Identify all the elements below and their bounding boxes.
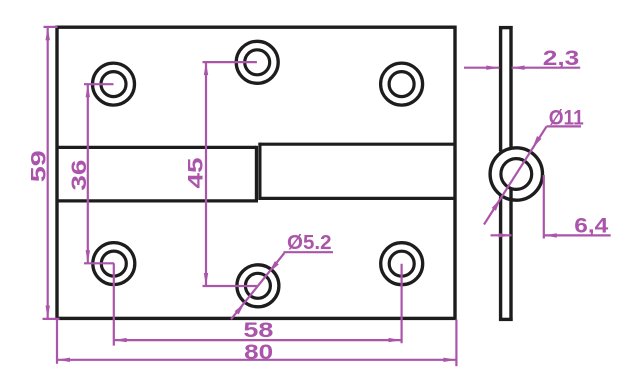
- dimension 80 line: [57, 359, 456, 361]
- dimension 2,3 arrow pointing left: [512, 66, 525, 70]
- dimension 36 extension tick top: [84, 83, 114, 85]
- dimension 6,4 left line: [491, 234, 512, 236]
- dimension 58 arrow left: [114, 338, 127, 342]
- hole bottom-right inner: [389, 251, 414, 276]
- hole top-right outer: [381, 63, 423, 105]
- svg-text:Ø5.2: Ø5.2: [287, 232, 332, 254]
- dimension diameter 5.2 upper arrow: [269, 261, 279, 272]
- side leaf bar bottom cap: [499, 318, 513, 321]
- dimension 2,3 arrow pointing right: [486, 66, 499, 70]
- svg-text:58: 58: [243, 319, 273, 342]
- slot left end vertical: [255, 146, 258, 203]
- dimension 59 arrow up: [46, 27, 50, 40]
- svg-text:6,4: 6,4: [574, 214, 608, 237]
- dimension 6,4 extension line: [543, 175, 545, 239]
- svg-text:59: 59: [27, 150, 50, 182]
- svg-text:Ø11: Ø11: [549, 107, 584, 130]
- knuckle inner circle: [501, 159, 532, 190]
- dimension 58 extension line left: [113, 263, 115, 345]
- dimension 6,4 arrow pointing right: [499, 233, 512, 237]
- dimension 36 arrow down: [86, 250, 90, 263]
- side leaf bar right line lower segment: [509, 190, 512, 322]
- side leaf bar left line upper segment: [499, 26, 502, 152]
- side leaf bar right line upper segment: [509, 26, 512, 148]
- slot right bottom line: [260, 197, 455, 200]
- dimension diameter 5.2 underline: [284, 251, 334, 253]
- hole top-right inner: [389, 72, 414, 97]
- dimension 36 extension tick bottom: [84, 262, 114, 264]
- slot left top line: [57, 146, 256, 149]
- knuckle outer circle: [490, 148, 542, 200]
- hole top-middle outer: [236, 41, 278, 83]
- dimension diameter 11 leader: [484, 127, 547, 225]
- dimension 80 extension line right: [455, 320, 457, 367]
- dimension 58 extension line right: [401, 264, 403, 344]
- svg-text:36: 36: [68, 160, 91, 191]
- dimension 80 arrow left: [57, 358, 70, 362]
- dimension 45 arrow up: [204, 62, 208, 75]
- dimension 59 extension tick top: [44, 26, 58, 28]
- svg-text:80: 80: [244, 341, 273, 364]
- dimension diameter 5.2 lower arrow: [235, 303, 245, 314]
- dimension 6,4 arrow pointing left: [544, 233, 557, 237]
- slot right end vertical: [258, 143, 261, 200]
- hole top-middle inner: [245, 50, 270, 75]
- dimension 59 arrow down: [46, 306, 50, 319]
- dimension 59 line: [47, 27, 49, 318]
- hole bottom-middle outer: [237, 265, 279, 307]
- plate outline: [57, 27, 455, 318]
- hole bottom-right outer: [381, 243, 423, 285]
- dimension 58 arrow right: [389, 338, 402, 342]
- dimension diameter 11 upper arrow: [533, 136, 542, 148]
- dimension 2,3 right line: [512, 67, 581, 69]
- dimension 45 extension tick bottom: [203, 285, 257, 287]
- dimension diameter 11 lower arrow: [492, 199, 501, 211]
- dimension 2,3 left line: [464, 67, 499, 69]
- hole bottom-middle inner: [245, 273, 270, 298]
- hole top-left outer: [93, 63, 135, 105]
- dimension 45 arrow down: [204, 273, 208, 286]
- side leaf bar left line lower segment: [499, 197, 502, 322]
- dimension diameter 11 underline: [547, 125, 582, 127]
- slot left bottom line: [57, 199, 256, 202]
- dimension 58 line: [114, 339, 402, 341]
- dimension 80 extension line left: [56, 320, 58, 364]
- dimension diameter 5.2 leader: [231, 253, 284, 319]
- hole top-left inner: [101, 72, 126, 97]
- side leaf bar top cap: [499, 26, 513, 29]
- hole bottom-left inner: [101, 251, 126, 276]
- dimension 36 arrow up: [86, 84, 90, 97]
- svg-text:2,3: 2,3: [543, 47, 580, 70]
- hole bottom-left outer: [93, 243, 135, 285]
- dimension 45 extension tick top: [203, 61, 257, 63]
- dimension 59 extension tick bottom: [43, 318, 60, 320]
- dimension 80 arrow right: [443, 358, 456, 362]
- svg-text:45: 45: [184, 157, 207, 188]
- slot right top line: [260, 143, 455, 146]
- dimension 45 line: [205, 62, 207, 286]
- dimension 6,4 right line: [544, 234, 611, 236]
- dimension 36 line: [87, 84, 89, 263]
